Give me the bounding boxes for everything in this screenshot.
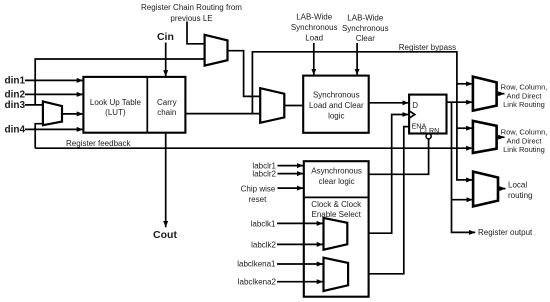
wire: clock into flip-flop [347,115,408,234]
wire: register feedback long line from Q [35,102,451,148]
wire: labclr1 arrow [278,165,304,167]
wire: labclr2 arrow [278,173,304,175]
svg-text:Clear: Clear [356,34,375,43]
wire: async clear to CLRN bubble [369,139,429,174]
svg-text:Register output: Register output [478,228,533,237]
svg-text:routing: routing [508,191,532,200]
svg-text:labclk2: labclk2 [251,240,276,249]
svg-text:Link Routing: Link Routing [503,145,545,154]
box: Synchronous Load and Clear logic [303,76,369,133]
wire: register bypass line [252,52,472,180]
wire: labclk1 into clock mux [277,222,323,224]
output mux O3 [473,172,498,207]
svg-text:Synchronous: Synchronous [313,90,360,99]
clock wedge [409,111,415,118]
wire: O3 output arrow [498,188,506,190]
svg-text:Register bypass: Register bypass [399,43,456,52]
output mux O2 [473,121,497,153]
wire: mux M3 output into sync box [284,105,303,107]
mux M4 clock select [324,218,348,250]
wire: Cout from carry chain [165,133,167,228]
svg-text:Local: Local [508,180,527,189]
wire: labclkena1 into enable mux [277,263,323,265]
divider between LUT and carry chain [146,77,148,133]
wire: din4 into LUT [25,128,83,130]
LUT and carry chain box [83,77,185,133]
svg-text:Chip wise: Chip wise [241,185,276,194]
wire: bypass branch to output mux O1 [457,83,473,85]
wire: sync load arrow into sync box [313,43,315,75]
box: Asynchronous clear logic / Clock & Clock Enable Select [304,161,369,297]
svg-text:clear logic: clear logic [319,177,355,186]
wire: din3 into input mux M2 [25,104,43,106]
wire: din2 into LUT [25,93,83,95]
svg-text:labclr2: labclr2 [252,169,276,178]
svg-text:Load and Clear: Load and Clear [309,101,364,110]
divider of lower box [304,196,369,198]
svg-text:Cin: Cin [157,31,174,43]
wire: enable into flip-flop [348,127,409,274]
svg-text:And Direct: And Direct [506,91,542,100]
svg-text:labclkena2: labclkena2 [238,277,277,286]
D flip-flop U1 [409,95,446,134]
svg-text:Synchronous: Synchronous [291,23,338,32]
svg-text:(LUT): (LUT) [105,108,126,117]
wire: sync box output to D input [369,102,409,104]
mux M3 sync-load-data select [260,88,284,123]
wire: Cin down into carry chain [165,43,167,77]
wire: bypass branch to output mux O2 [457,127,473,129]
svg-text:logic: logic [328,112,344,121]
wire: register feedback into mux M2 [35,124,43,149]
wire: mux M2 output into LUT [62,113,83,115]
svg-text:Register feedback: Register feedback [66,139,131,148]
wire: feedback branch up to register-chain mux M1 [35,59,204,105]
svg-text:Row, Column,: Row, Column, [501,128,548,137]
svg-text:chain: chain [157,108,176,117]
mux M5 clock enable select [324,258,349,291]
svg-text:Asynchronous: Asynchronous [311,167,362,176]
wire: carry chain output to sync mux M3 [185,113,260,115]
svg-text:din2: din2 [5,89,26,100]
svg-text:Link Routing: Link Routing [503,100,545,109]
wire: Q vertical to register output [452,148,476,232]
wire: labclkena2 into enable mux [277,281,323,283]
svg-text:reset: reset [249,195,268,204]
wire: mux M1 output to sync mux M3 [228,51,261,97]
svg-text:din1: din1 [5,75,26,86]
wire: din1 into LUT [25,79,83,81]
output mux O1 [473,77,497,111]
svg-text:Register Chain Routing from: Register Chain Routing from [141,3,242,12]
CLRN bubble [426,134,431,139]
svg-text:Synchronous: Synchronous [342,24,389,33]
wire: Q branch to output mux O3 [452,199,473,201]
wire: O2 output arrow [497,136,505,138]
svg-text:Row, Column,: Row, Column, [501,83,548,92]
wire: sync clear arrow into sync box [356,43,358,75]
svg-text:Cout: Cout [153,229,177,241]
svg-text:din4: din4 [5,124,26,135]
svg-text:previous LE: previous LE [170,14,212,23]
svg-text:Carry: Carry [157,98,177,107]
mux M2 din3/feedback select [43,101,62,125]
svg-text:labclkena1: labclkena1 [237,259,276,268]
wire: Q output to output mux O1 [447,101,473,103]
wire: Q branch to output mux O2 [452,147,473,149]
wire: labclk2 into clock mux [277,243,323,245]
svg-text:LAB-Wide: LAB-Wide [296,13,333,22]
wire: O1 output arrow [497,93,505,95]
wire: chip wise reset arrow [278,187,304,189]
svg-text:Clock & Clock: Clock & Clock [311,200,362,209]
svg-text:Look Up Table: Look Up Table [90,98,142,107]
svg-text:D: D [412,101,418,110]
wire: register chain routing into mux M1 [187,22,205,44]
svg-text:LAB-Wide: LAB-Wide [347,13,384,22]
svg-text:din3: din3 [5,100,26,111]
mux M1 register chain select [205,35,228,66]
svg-text:Load: Load [305,33,323,42]
svg-text:Enable Select: Enable Select [312,210,362,219]
svg-text:labclk1: labclk1 [251,219,276,228]
